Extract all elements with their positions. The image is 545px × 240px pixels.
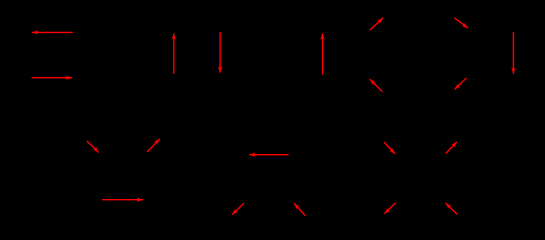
arrow down-left diagonal, bottom-mid [232,203,244,215]
arrow down-right diagonal, top cube right [454,18,468,28]
arrow up-right diagonal, bottom-left [147,139,160,152]
arrow up-left diagonal, X cluster bottom-right [446,203,458,214]
arrow down-right diagonal, X cluster top-left [384,142,395,154]
arrow down-left diagonal, mid cube right [455,78,467,90]
arrow up-right diagonal, X cluster top-right [446,142,457,154]
arrow up, x=173 [173,33,175,74]
arrow right, below top-left [32,77,73,79]
arrow right, y=200 [102,199,143,201]
arrow up-left diagonal, bottom-mid [294,203,305,215]
arrow up-right diagonal, top cube left [370,18,383,30]
arrow up-left diagonal, mid cube left [370,79,383,92]
arrow up, x=322 [322,33,324,74]
arrow down-right diagonal, bottom-left [87,141,99,153]
arrow down, x=513 [512,32,514,74]
arrow left, top-left square [32,31,73,33]
arrow down-left diagonal, X cluster bottom-left [384,203,395,214]
arrow left, y=155 [249,154,288,156]
arrow down, x=220 [219,32,221,73]
